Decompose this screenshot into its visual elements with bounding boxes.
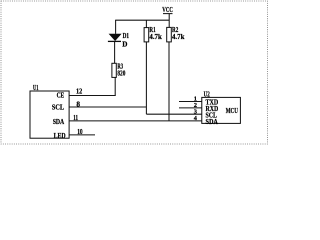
svg-text:SCL: SCL — [52, 103, 65, 111]
svg-text:12: 12 — [76, 88, 83, 96]
svg-text:820: 820 — [117, 70, 125, 78]
svg-text:11: 11 — [73, 114, 78, 122]
svg-text:SDA: SDA — [206, 118, 219, 126]
svg-text:CE: CE — [57, 92, 65, 100]
resistor R2 — [167, 26, 185, 42]
wire CE net — [69, 95, 116, 97]
diode D1 — [108, 32, 129, 48]
MCU connector U2 — [202, 89, 241, 123]
wire top rail — [115, 19, 169, 21]
svg-text:8: 8 — [76, 101, 80, 109]
wire R3 bottom to CE corner — [114, 77, 116, 95]
svg-text:D1: D1 — [123, 32, 130, 40]
IC U1 — [30, 85, 69, 138]
svg-text:D: D — [122, 40, 127, 48]
wire U2 pin1 stub — [179, 101, 202, 103]
wire R1 bottom lead with jog — [145, 42, 147, 114]
border frame (decorative, dotted) — [1, 1, 268, 144]
svg-text:LED: LED — [54, 132, 66, 140]
svg-text:4.7k: 4.7k — [172, 33, 184, 41]
svg-text:SDA: SDA — [53, 118, 65, 126]
wire diode cathode to R3 — [114, 41, 116, 63]
svg-text:VCC: VCC — [162, 5, 173, 14]
svg-text:10: 10 — [77, 128, 83, 136]
power VCC symbol bar — [163, 13, 173, 15]
wire SCL net right — [146, 113, 201, 115]
resistor R3 — [112, 62, 126, 77]
wire VCC stem — [168, 14, 170, 28]
svg-text:4.7k: 4.7k — [149, 33, 161, 41]
wire diode anode — [115, 20, 117, 34]
wire U2 pin2 stub — [179, 107, 202, 109]
wire SDA net — [69, 120, 202, 122]
wire SCL net left — [69, 106, 146, 108]
svg-text:MCU: MCU — [226, 106, 239, 115]
svg-text:U1: U1 — [33, 85, 39, 92]
resistor R1 — [144, 26, 162, 42]
wire R2 bottom lead — [168, 42, 170, 121]
wire LED pin stub — [69, 134, 95, 136]
svg-text:U2: U2 — [204, 89, 210, 98]
wire R1 top lead — [145, 20, 147, 27]
